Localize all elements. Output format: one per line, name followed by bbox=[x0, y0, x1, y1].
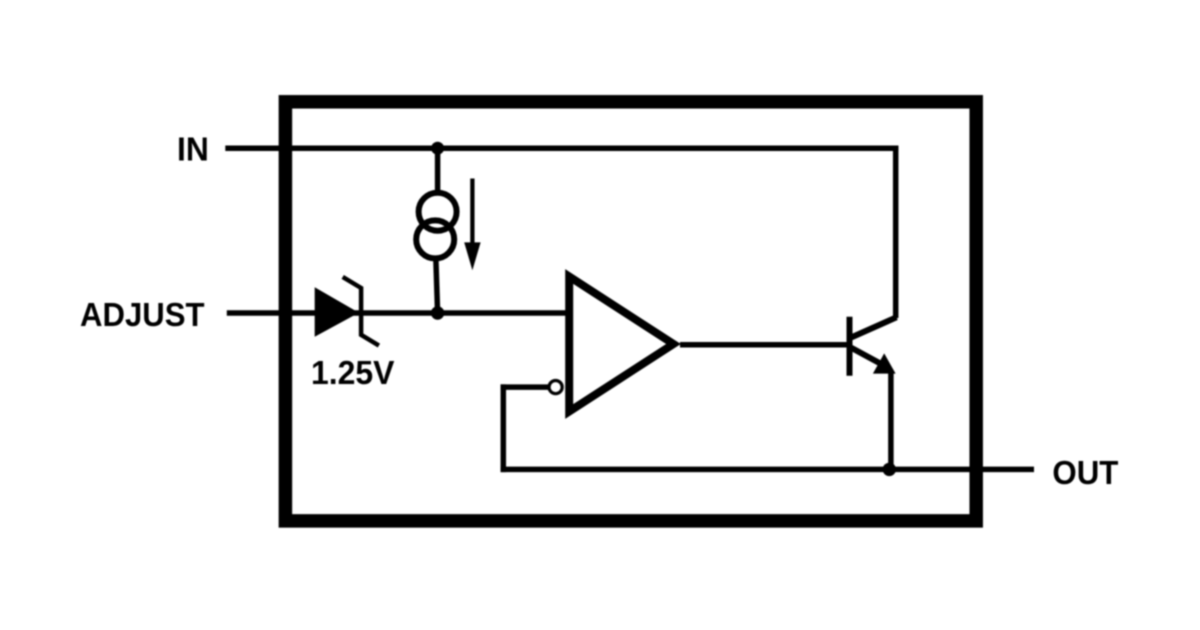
transistor Q1 collector diagonal bbox=[850, 317, 897, 338]
wire current source bottom lead bbox=[436, 260, 438, 313]
transistor Q1 emitter arrowhead bbox=[873, 353, 896, 373]
wire feedback bottom run bbox=[501, 467, 890, 473]
wire op-amp output to base bbox=[680, 342, 847, 348]
wire current source top lead bbox=[435, 148, 441, 193]
wire OUT rail bbox=[889, 467, 1034, 473]
wire IN rail bbox=[225, 145, 898, 151]
wire inverting input bbox=[501, 384, 549, 390]
svg-text:ADJUST: ADJUST bbox=[80, 297, 205, 334]
wire emitter vertical bbox=[888, 371, 894, 469]
wire collector vertical bbox=[893, 146, 899, 319]
svg-text:IN: IN bbox=[177, 132, 209, 169]
current direction arrow bbox=[470, 179, 474, 251]
transistor Q1 base bar bbox=[847, 317, 853, 376]
op-amp inverting input bubble bbox=[549, 381, 562, 394]
op-amp U1 triangle bbox=[569, 277, 673, 412]
zener diode D1 cathode bar with hooks bbox=[343, 277, 379, 346]
wire feedback vertical bbox=[501, 384, 507, 472]
block outline bbox=[285, 102, 976, 521]
current source I1 (overlapping circles) bbox=[419, 193, 457, 231]
transistor Q1 emitter diagonal bbox=[851, 348, 884, 366]
svg-text:OUT: OUT bbox=[1052, 455, 1118, 492]
node B (ADJUST / current source junction) bbox=[431, 306, 444, 319]
svg-text:1.25V: 1.25V bbox=[311, 355, 395, 392]
node C (OUT junction) bbox=[883, 463, 896, 476]
wire ADJUST rail bbox=[227, 310, 566, 316]
node A (IN / current source junction) bbox=[431, 142, 444, 155]
zener diode D1 (1.25V reference) anode triangle bbox=[315, 287, 359, 336]
